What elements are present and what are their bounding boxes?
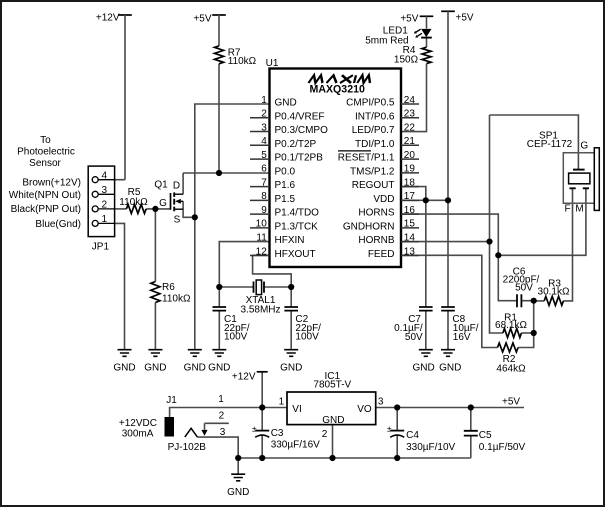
svg-text:White(NPN Out): White(NPN Out) xyxy=(9,190,81,201)
svg-text:300mA: 300mA xyxy=(122,429,154,440)
svg-text:P0.1/T2PB: P0.1/T2PB xyxy=(275,153,324,164)
svg-text:22: 22 xyxy=(404,122,416,133)
svg-text:18: 18 xyxy=(404,177,416,188)
svg-text:REGOUT: REGOUT xyxy=(352,180,395,191)
svg-text:1: 1 xyxy=(102,214,108,225)
svg-text:13: 13 xyxy=(404,246,416,257)
svg-text:S: S xyxy=(174,215,181,226)
svg-text:10: 10 xyxy=(256,219,268,230)
svg-text:Brown(+12V): Brown(+12V) xyxy=(22,177,81,188)
svg-text:GND: GND xyxy=(412,363,434,374)
svg-text:P0.0: P0.0 xyxy=(275,166,296,177)
svg-text:GND: GND xyxy=(439,363,461,374)
svg-text:HFXOUT: HFXOUT xyxy=(275,249,316,260)
svg-text:GNDHORN: GNDHORN xyxy=(343,221,395,232)
svg-text:+12V: +12V xyxy=(232,372,256,383)
svg-text:D: D xyxy=(173,181,180,192)
svg-text:12: 12 xyxy=(256,246,268,257)
svg-text:VI: VI xyxy=(292,404,301,415)
svg-text:7: 7 xyxy=(261,177,267,188)
svg-text:P1.3/TCK: P1.3/TCK xyxy=(275,221,319,232)
svg-text:20: 20 xyxy=(404,150,416,161)
svg-text:110kΩ: 110kΩ xyxy=(162,294,191,305)
svg-text:7805T-V: 7805T-V xyxy=(313,379,351,390)
svg-text:68.1kΩ: 68.1kΩ xyxy=(495,320,527,331)
svg-text:16V: 16V xyxy=(453,332,471,343)
svg-text:+12VDC: +12VDC xyxy=(119,418,157,429)
svg-text:GND: GND xyxy=(275,98,297,109)
svg-text:+5V: +5V xyxy=(400,14,418,25)
svg-text:±: ± xyxy=(387,424,392,434)
svg-text:19: 19 xyxy=(404,164,416,175)
svg-text:F: F xyxy=(564,203,570,214)
svg-text:VO: VO xyxy=(357,404,372,415)
svg-text:464kΩ: 464kΩ xyxy=(496,364,526,375)
svg-text:TDI/P1.0: TDI/P1.0 xyxy=(355,139,395,150)
svg-text:110kΩ: 110kΩ xyxy=(119,197,148,208)
svg-text:CEP-1172: CEP-1172 xyxy=(527,139,573,150)
svg-text:G: G xyxy=(159,198,167,209)
svg-text:JP1: JP1 xyxy=(92,241,110,252)
svg-text:3: 3 xyxy=(220,427,226,438)
svg-text:Blue(Gnd): Blue(Gnd) xyxy=(35,219,81,230)
svg-text:23: 23 xyxy=(404,109,416,120)
svg-text:C4: C4 xyxy=(406,430,419,441)
svg-text:Sensor: Sensor xyxy=(29,158,61,169)
svg-text:330µF/16V: 330µF/16V xyxy=(271,440,320,451)
svg-text:GND: GND xyxy=(184,363,206,374)
svg-text:GND: GND xyxy=(144,363,166,374)
svg-text:330µF/10V: 330µF/10V xyxy=(406,442,455,453)
svg-text:HFXIN: HFXIN xyxy=(275,235,305,246)
svg-text:+5V: +5V xyxy=(456,12,474,23)
svg-text:C3: C3 xyxy=(271,428,284,439)
svg-text:+5V: +5V xyxy=(193,14,211,25)
svg-text:LED/P0.7: LED/P0.7 xyxy=(352,125,395,136)
svg-text:GND: GND xyxy=(227,487,249,498)
svg-text:1: 1 xyxy=(261,95,267,106)
svg-text:4: 4 xyxy=(261,136,267,147)
svg-text:P1.5: P1.5 xyxy=(275,194,296,205)
svg-text:2: 2 xyxy=(102,200,108,211)
svg-text:TMS/P1.2: TMS/P1.2 xyxy=(350,166,395,177)
svg-text:21: 21 xyxy=(404,136,416,147)
svg-text:FEED: FEED xyxy=(368,249,395,260)
svg-text:+5V: +5V xyxy=(502,396,520,407)
svg-text:1: 1 xyxy=(218,394,224,405)
svg-text:Photoelectric: Photoelectric xyxy=(17,146,75,157)
svg-text:VDD: VDD xyxy=(373,194,394,205)
svg-text:HORNS: HORNS xyxy=(358,208,394,219)
svg-text:150Ω: 150Ω xyxy=(394,55,419,66)
svg-text:3.58MHz: 3.58MHz xyxy=(240,305,280,316)
svg-text:1: 1 xyxy=(279,397,285,408)
svg-text:GND: GND xyxy=(280,363,302,374)
svg-text:GND: GND xyxy=(113,363,135,374)
svg-text:0.1µF/50V: 0.1µF/50V xyxy=(479,442,526,453)
svg-text:G: G xyxy=(580,140,588,151)
svg-text:24: 24 xyxy=(404,95,416,106)
svg-text:15: 15 xyxy=(404,219,416,230)
svg-text:To: To xyxy=(40,135,51,146)
svg-text:4: 4 xyxy=(102,171,108,182)
svg-text:5: 5 xyxy=(261,150,267,161)
svg-text:P0.3/CMPO: P0.3/CMPO xyxy=(275,125,329,136)
svg-text:+12V: +12V xyxy=(96,13,120,24)
svg-text:C5: C5 xyxy=(479,430,492,441)
svg-text:PJ-102B: PJ-102B xyxy=(168,442,207,453)
svg-text:3: 3 xyxy=(102,185,108,196)
svg-text:50V: 50V xyxy=(405,332,423,343)
svg-text:Q1: Q1 xyxy=(154,180,168,191)
svg-text:16: 16 xyxy=(404,205,416,216)
svg-text:GND: GND xyxy=(322,415,344,426)
svg-text:RESET/P1.1: RESET/P1.1 xyxy=(338,153,395,164)
svg-text:100V: 100V xyxy=(295,332,319,343)
svg-text:P1.4/TDO: P1.4/TDO xyxy=(275,208,320,219)
svg-text:MAXQ3210: MAXQ3210 xyxy=(310,84,365,96)
svg-text:±: ± xyxy=(252,424,257,434)
svg-text:9: 9 xyxy=(261,205,267,216)
svg-text:Black(PNP Out): Black(PNP Out) xyxy=(11,204,81,215)
svg-text:11: 11 xyxy=(256,233,267,244)
svg-text:2: 2 xyxy=(261,109,267,120)
svg-text:14: 14 xyxy=(404,233,416,244)
svg-text:P1.6: P1.6 xyxy=(275,180,296,191)
svg-text:2: 2 xyxy=(219,411,225,422)
svg-text:6: 6 xyxy=(261,164,267,175)
svg-text:3: 3 xyxy=(261,122,267,133)
svg-text:CMPI/P0.5: CMPI/P0.5 xyxy=(346,98,395,109)
svg-text:100V: 100V xyxy=(224,332,248,343)
svg-text:30.1kΩ: 30.1kΩ xyxy=(538,287,570,298)
svg-text:2: 2 xyxy=(322,429,328,440)
svg-text:INT/P0.6: INT/P0.6 xyxy=(355,111,395,122)
svg-text:J1: J1 xyxy=(166,395,177,406)
svg-text:U1: U1 xyxy=(266,58,279,69)
svg-text:P0.2/T2P: P0.2/T2P xyxy=(275,139,317,150)
svg-text:17: 17 xyxy=(404,191,416,202)
svg-text:8: 8 xyxy=(261,191,267,202)
svg-text:P0.4/VREF: P0.4/VREF xyxy=(275,111,325,122)
svg-text:110kΩ: 110kΩ xyxy=(228,56,257,67)
svg-text:3: 3 xyxy=(378,397,384,408)
svg-text:M: M xyxy=(575,203,583,214)
svg-text:HORNB: HORNB xyxy=(358,235,394,246)
svg-text:50V: 50V xyxy=(515,283,533,294)
svg-text:GND: GND xyxy=(208,363,230,374)
svg-text:R6: R6 xyxy=(162,282,175,293)
